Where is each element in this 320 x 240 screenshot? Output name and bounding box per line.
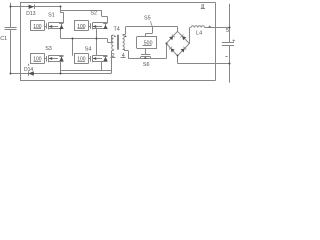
svg-text:100: 100: [33, 24, 42, 30]
svg-text:S1: S1: [48, 12, 55, 18]
svg-text:100: 100: [77, 24, 86, 30]
svg-text:500: 500: [144, 41, 153, 47]
svg-text:C1: C1: [0, 36, 7, 42]
svg-text:8: 8: [201, 4, 204, 10]
svg-text:4: 4: [122, 53, 125, 59]
svg-text:S3: S3: [45, 46, 52, 52]
svg-text:5: 5: [226, 28, 229, 34]
svg-text:2: 2: [112, 53, 115, 59]
svg-text:S2: S2: [90, 10, 97, 16]
svg-text:S4: S4: [85, 47, 92, 53]
svg-text:D14: D14: [24, 67, 33, 73]
svg-text:S6: S6: [143, 62, 150, 68]
svg-text:D13: D13: [26, 11, 35, 17]
svg-text:+: +: [208, 25, 211, 31]
svg-text:T4: T4: [114, 27, 120, 33]
svg-text:S5: S5: [144, 15, 151, 21]
svg-text:L4: L4: [196, 31, 202, 37]
svg-text:+: +: [232, 38, 235, 44]
